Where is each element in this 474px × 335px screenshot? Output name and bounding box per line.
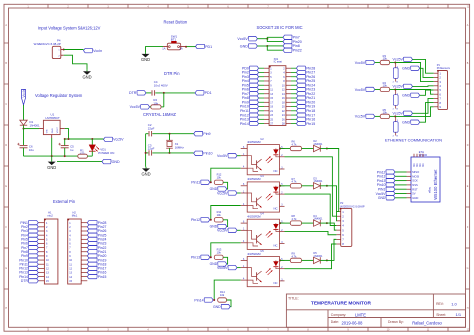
svg-text:10u: 10u — [29, 148, 34, 152]
wire sensor2 Vcc5V to P1 pin4 — [413, 85, 434, 88]
svg-text:GND: GND — [402, 67, 410, 71]
svg-text:Pin15: Pin15 — [98, 275, 107, 279]
svg-text:GND: GND — [112, 160, 120, 164]
svg-text:GND: GND — [47, 165, 56, 170]
svg-text:NC: NC — [417, 163, 419, 167]
svg-text:Sheet:: Sheet: — [436, 313, 446, 317]
connector P2 pin 5 — [336, 228, 344, 232]
svg-text:IC seat: IC seat — [274, 60, 282, 64]
socket X01 pin 8 with flag Pin25 — [283, 79, 315, 83]
socket X01 pin 10 with flag Pin24 — [282, 83, 315, 87]
svg-text:CRYSTAL 16MHZ: CRYSTAL 16MHZ — [143, 112, 176, 117]
svg-text:1N4001: 1N4001 — [313, 254, 323, 258]
header H1 pin 11 flag Pin11 — [19, 262, 49, 266]
svg-text:U4: U4 — [260, 212, 264, 216]
net flag GND sensor3 — [402, 120, 420, 125]
wire crystal top left — [146, 133, 149, 135]
wire 5V rail — [65, 138, 104, 140]
header H2 pin 6 flag Pin23 — [69, 241, 106, 245]
svg-text:10k: 10k — [217, 250, 222, 254]
junction D2 output — [326, 148, 328, 150]
header H2 pin 4 flag Pin25 — [69, 233, 106, 237]
svg-text:mic2: mic2 — [47, 214, 53, 218]
svg-text:ETHERNET COMMUNICATION: ETHERNET COMMUNICATION — [385, 137, 442, 142]
svg-text:1/1: 1/1 — [456, 312, 462, 317]
header H2 pin 2 flag Pin27 — [69, 225, 106, 229]
resistor R8 — [290, 221, 301, 225]
resistor R2 — [151, 105, 161, 109]
socket X01 pin 11 with flag Pin6 — [242, 87, 274, 91]
socket X01 pin 3 with flag Pin2 — [242, 70, 273, 74]
net flag Pin12 — [191, 218, 210, 223]
svg-text:Pin15: Pin15 — [306, 122, 315, 126]
header H2 pin 12 flag Pin17 — [69, 266, 106, 270]
junction crystal bottom — [169, 152, 171, 154]
wire Vcc5V to R3 — [375, 62, 380, 64]
net flag Vcc5V regulator out — [104, 137, 125, 142]
svg-text:2A: 2A — [179, 47, 182, 51]
regulator U1 LM7805CT — [39, 120, 65, 138]
header H2 pin 14 flag Pin15 — [69, 275, 106, 279]
net flag Pin9 — [194, 132, 211, 137]
connector P1 pin 7 — [434, 97, 442, 101]
net flag Vcc5V opto U5 — [217, 265, 237, 270]
junction Pin13 node — [210, 256, 212, 258]
net flag Pin22 — [283, 48, 302, 53]
socket X01 pin 13 with flag Pin7 — [242, 92, 274, 96]
junction U4 pin5 — [279, 222, 281, 224]
svg-text:1u: 1u — [70, 148, 74, 152]
net flag GND R12 group — [210, 187, 227, 191]
net flag Pin7 — [283, 35, 300, 40]
connector P2 pin 8 — [336, 242, 344, 246]
junction 5V rail at U1 elbow — [68, 138, 70, 140]
svg-text:SCK: SCK — [412, 179, 418, 183]
svg-text:G: G — [467, 267, 469, 270]
svg-text:22pF: 22pF — [148, 147, 155, 151]
wire to Pin22 — [267, 46, 283, 50]
wire U1 VOUT to 5V rail — [65, 129, 69, 139]
resistor R14 — [218, 298, 227, 302]
sensor connector J1 — [393, 63, 399, 84]
svg-text:Pin11: Pin11 — [191, 181, 200, 185]
svg-text:RST: RST — [412, 187, 418, 191]
wire gnd rail to GND flag — [57, 161, 102, 163]
junction U5 pin5 — [279, 259, 281, 261]
header H2 pin 9 flag Pin20 — [69, 254, 106, 258]
svg-text:Vcc5V: Vcc5V — [113, 138, 124, 142]
svg-text:TITLE:: TITLE: — [288, 297, 299, 301]
svg-text:W5100 Ethernet: W5100 Ethernet — [433, 169, 438, 200]
svg-text:Reset Button: Reset Button — [164, 19, 188, 24]
header H2 pin 15 stub — [69, 280, 87, 283]
svg-text:MOSI: MOSI — [412, 174, 419, 178]
net flag Vcc5V sensor1 to P1 — [393, 57, 413, 62]
ground symbol GND input section — [82, 70, 91, 80]
wire VccIn node down to C6 — [23, 129, 25, 145]
net flag Vcc5V sensor3 to P1 — [393, 111, 413, 116]
header H2 pin 7 flag Pin22 — [69, 246, 106, 250]
svg-text:Date:: Date: — [331, 320, 339, 324]
net flag Pin14 — [194, 298, 213, 303]
svg-text:eBay: eBay — [428, 186, 432, 193]
svg-text:MISO: MISO — [412, 170, 419, 174]
wire R8 to D4 — [302, 222, 314, 224]
wire Vcc5V to R4 — [375, 88, 380, 90]
svg-text:BT1: BT1 — [171, 37, 177, 41]
svg-text:10nJ 400V: 10nJ 400V — [154, 83, 168, 87]
diode D3 — [314, 183, 321, 189]
header H1 pin 3 flag Pin3 — [21, 229, 48, 233]
connector P2 pin 3 — [336, 219, 344, 223]
junction sensor3 data node — [394, 115, 396, 117]
wire Vcc5V to U4 pin1 — [237, 229, 241, 231]
svg-text:Pin14: Pin14 — [240, 122, 249, 126]
svg-text:Rafael_Cardoso: Rafael_Cardoso — [412, 320, 442, 325]
svg-text:VccIn: VccIn — [93, 49, 102, 53]
net flag Pin10 w5100 — [377, 183, 395, 188]
svg-text:1.0: 1.0 — [451, 301, 457, 306]
svg-text:SOCKET 28 IC FOR MIC: SOCKET 28 IC FOR MIC — [257, 25, 303, 30]
module ETH W5100 body — [407, 154, 441, 202]
resistor R3 — [380, 60, 389, 64]
svg-text:Vcc5V: Vcc5V — [355, 115, 366, 119]
wire sensor3 Vcc5V to P1 pin7 — [413, 98, 434, 113]
svg-text:GND: GND — [141, 172, 150, 177]
junction 5V rail at VD1 — [91, 138, 93, 140]
wire sensor3 data to P1 pin9 — [395, 107, 433, 117]
svg-text:Vcc5V: Vcc5V — [130, 105, 141, 109]
wire VccIn down to D1 — [23, 105, 25, 120]
wire Pin11 to W5100 — [395, 175, 407, 177]
socket X01 pin 15 with flag Pin8 — [242, 96, 274, 100]
svg-text:Vcc5V: Vcc5V — [237, 37, 248, 41]
socket X01 pin 9 with flag Pin5 — [242, 83, 273, 87]
socket X01 pin 5 with flag Pin3 — [242, 75, 273, 79]
svg-text:LMTE: LMTE — [355, 312, 366, 317]
svg-text:GND: GND — [402, 121, 410, 125]
svg-text:Voltage Regulator System: Voltage Regulator System — [35, 93, 83, 98]
svg-text:Vcc5V: Vcc5V — [217, 266, 228, 270]
net flag Vcc5V opto U3 — [217, 191, 237, 196]
wire R3 to data node — [390, 62, 396, 64]
svg-text:Vcc5V: Vcc5V — [393, 58, 404, 62]
resistor R1 — [78, 154, 88, 158]
svg-text:Vcc5V: Vcc5V — [217, 229, 228, 233]
junction D4 output — [326, 222, 328, 224]
wire R2 to Vcc5V — [150, 106, 151, 108]
resistor R7 — [290, 184, 301, 188]
resistor R11 — [214, 218, 223, 222]
svg-text:VOUT: VOUT — [57, 126, 59, 133]
header H2 pin 11 flag Pin18 — [69, 262, 106, 266]
net flag Pin13 — [191, 255, 210, 260]
connector P1 pin 6 — [434, 92, 442, 96]
svg-text:GND: GND — [213, 305, 221, 309]
socket X01 pin 12 with flag Pin23 — [282, 87, 315, 91]
wire C6 to gnd rail — [23, 148, 25, 156]
svg-text:Pin13: Pin13 — [191, 256, 200, 260]
svg-text:4.7k: 4.7k — [292, 254, 298, 258]
wire U2 pin4 to Pin11 node — [211, 168, 241, 182]
wire Vcc5V to R5 — [375, 115, 380, 117]
header H2 pin 3 flag Pin26 — [69, 229, 106, 233]
svg-text:Vcc5V: Vcc5V — [393, 85, 404, 89]
header H1 body — [44, 219, 58, 284]
wire crystal top to Pin9 — [152, 133, 193, 135]
junction gnd rail U1 — [51, 155, 53, 157]
wire VD1 to gnd rail — [91, 151, 93, 156]
svg-text:POWER ON: POWER ON — [98, 151, 114, 155]
net flag GND sensor1 — [402, 66, 420, 71]
svg-text:1N4001: 1N4001 — [313, 142, 323, 146]
net flag PIN1 w5100 — [378, 187, 395, 192]
net flag VccIn vertical — [21, 89, 26, 105]
connector P4 WJ2EDGVC-5.08-2P — [52, 46, 63, 58]
socket X01 pin 1 with flag PD0 — [242, 66, 272, 70]
net flag GND sensor2 — [402, 93, 420, 98]
net flag Pin11 w5100 — [377, 174, 395, 179]
svg-text:10k: 10k — [217, 213, 222, 217]
svg-text:Pin14: Pin14 — [194, 298, 203, 302]
wire to U1 VIN — [24, 128, 40, 130]
svg-text:Drawn By:: Drawn By: — [388, 320, 404, 324]
junction at P4 pin1 — [63, 49, 65, 51]
svg-text:GND: GND — [402, 94, 410, 98]
wire U4 pin2 to P2 pin6 — [285, 231, 337, 234]
wire GND to W5100 — [395, 197, 407, 199]
wire Vcc5V to U5 pin1 — [237, 267, 241, 269]
junction crystal gnd — [145, 152, 147, 154]
svg-text:LM7805CT: LM7805CT — [46, 116, 61, 120]
svg-text:4N25SR2M: 4N25SR2M — [247, 215, 260, 219]
svg-text:Vcc5V: Vcc5V — [355, 61, 366, 65]
svg-text:Pin10: Pin10 — [203, 152, 212, 156]
net flag Vcc5V socket — [237, 37, 257, 42]
wire R4 to data node — [390, 88, 396, 90]
svg-text:DTR Pin: DTR Pin — [164, 71, 180, 76]
resistor R6 — [290, 146, 301, 150]
wire D4 out to P2 pin5 — [327, 223, 337, 230]
svg-text:WJ2EDGVC-5.08-2P: WJ2EDGVC-5.08-2P — [34, 42, 61, 46]
header H1 pin 8 flag Pin8 — [21, 250, 48, 254]
junction GND socket — [266, 45, 268, 47]
svg-text:U5: U5 — [260, 249, 264, 253]
svg-text:H: H — [467, 307, 469, 310]
net flag Pin13 w5100 — [377, 178, 395, 183]
svg-text:D: D — [5, 144, 7, 147]
wire U3 pin4 to Pin12 node — [211, 206, 241, 220]
svg-text:1N4001: 1N4001 — [30, 124, 41, 128]
wire VD1 top — [91, 139, 93, 145]
svg-text:22pF: 22pF — [148, 126, 155, 130]
svg-text:GND: GND — [52, 128, 54, 133]
svg-text:4N25SR2M: 4N25SR2M — [247, 252, 260, 256]
svg-text:4N25SR2M: 4N25SR2M — [247, 177, 260, 181]
wire GND socket — [257, 45, 267, 47]
wire C5 top — [64, 139, 66, 146]
wire Pin13 to W5100 — [395, 180, 407, 182]
junction DTR node — [163, 92, 165, 94]
connector P2 body — [341, 208, 352, 246]
socket X01 pin 28 with flag Pin15 — [282, 121, 315, 125]
wire crystal bottom to Pin10 — [152, 152, 193, 154]
svg-text:NC: NC — [273, 244, 277, 248]
header H1 pin 13 flag Pin13 — [19, 270, 49, 274]
svg-text:Pin22: Pin22 — [293, 49, 302, 53]
wire crystal bottom left — [146, 152, 149, 154]
svg-text:H: H — [5, 307, 7, 310]
junction crystal top — [169, 133, 171, 135]
net flag Vcc5V sensor2 to P1 — [393, 84, 413, 89]
wire D1 to U1 row — [23, 125, 25, 128]
diode D5 — [314, 257, 321, 263]
crystal X1 — [166, 134, 173, 153]
resistor R4 — [380, 87, 389, 91]
svg-text:NC: NC — [273, 169, 277, 173]
junction sensor1 data node — [394, 62, 396, 64]
wire sensor1 Vcc5V to P1 pin1 — [413, 59, 434, 73]
wire D5 output stub — [320, 259, 327, 261]
connector P2 pin 1 — [336, 210, 344, 214]
svg-text:NC: NC — [423, 163, 425, 167]
connector P1 pin 9 — [434, 105, 442, 109]
svg-text:4.7k: 4.7k — [292, 180, 298, 184]
net flag Vcc5V opto U2 — [217, 154, 237, 159]
net flag Vcc5V sensor3 left — [355, 114, 375, 119]
header H1 pin 7 flag Pin7 — [21, 246, 48, 250]
svg-text:1N4001: 1N4001 — [313, 217, 323, 221]
capacitor C5 — [58, 143, 68, 148]
svg-text:DTR: DTR — [129, 91, 137, 95]
connector P1 pin 4 — [434, 84, 442, 88]
socket X01 pin 23 with flag Pin12 — [240, 113, 274, 117]
svg-text:NC: NC — [273, 206, 277, 210]
wire D5 out to P2 pin7 — [327, 239, 337, 260]
wire R2 right — [161, 106, 164, 108]
resistor R13 — [214, 255, 223, 259]
net flag Pin20 — [283, 39, 302, 44]
connector P2 pin1 marker — [340, 208, 342, 210]
wire Pin12 to W5100 — [395, 171, 407, 173]
connector P2 pin 7 — [336, 238, 344, 242]
svg-text:GND: GND — [82, 75, 91, 80]
svg-text:4N25SR2M: 4N25SR2M — [247, 140, 260, 144]
wire crystal gnd vertical — [145, 134, 147, 167]
LED VD1 — [89, 145, 99, 152]
wire sensor3 GND to P1 pin8 — [420, 103, 434, 123]
svg-text:C: C — [5, 103, 7, 106]
wire to Pin8 — [267, 45, 283, 47]
wire R13 to GND flag — [223, 257, 228, 264]
svg-text:WJ2EDGVC-5.08-8P: WJ2EDGVC-5.08-8P — [340, 204, 365, 208]
capacitor C6 — [17, 143, 27, 148]
svg-text:REV:: REV: — [436, 302, 444, 306]
ground symbol regulator — [47, 160, 56, 170]
junction sensor2 data node — [394, 88, 396, 90]
header H1 pin 15 flag DTR — [21, 279, 49, 283]
net flag GND R11 group — [210, 224, 227, 228]
header H1 pin 6 flag Pin6 — [21, 241, 48, 245]
wire sensor2 data to P1 pin6 — [395, 90, 433, 95]
svg-text:External Pin: External Pin — [53, 199, 76, 204]
gnd rail wire regulator — [24, 155, 78, 157]
optocoupler U2 body — [241, 145, 285, 175]
net flag GND w5100 — [378, 196, 395, 201]
header H2 pin 8 flag Pin21 — [69, 250, 106, 254]
svg-text:PD1: PD1 — [205, 91, 212, 95]
junction Vcc5V socket — [266, 38, 268, 40]
svg-text:16MHz: 16MHz — [175, 145, 185, 149]
junction Pin14 node — [213, 299, 215, 301]
socket X01 body — [269, 66, 286, 126]
connector P1 pin 3 — [434, 80, 442, 84]
svg-text:PD1: PD1 — [205, 45, 212, 49]
wire D3 out to P2 pin3 — [327, 186, 337, 221]
wire DTR node to R2 — [163, 93, 165, 107]
net flag DTR — [129, 91, 146, 96]
connector P1 pin 2 — [434, 76, 442, 80]
wire R9 to D5 — [302, 259, 314, 261]
net flag Vcc5V dtr — [130, 105, 150, 110]
socket X01 pin 17 with flag Pin9 — [242, 100, 274, 104]
header H1 pin 2 flag Pin2 — [21, 225, 48, 229]
net flag GND R13 group — [210, 262, 227, 266]
svg-text:10k: 10k — [220, 293, 225, 297]
wire U4 pin4 to Pin13 node — [211, 243, 241, 257]
wire SW1 to GND — [146, 47, 164, 53]
svg-text:GND: GND — [378, 196, 386, 200]
wire sensor2 GND to P1 pin5 — [420, 90, 434, 95]
wire R11 to GND flag — [223, 220, 228, 227]
wire C4 to PD1 node — [155, 92, 195, 94]
resistor R5 — [380, 114, 389, 118]
wire to Pin7 — [267, 37, 283, 38]
svg-text:Vcc5V: Vcc5V — [393, 112, 404, 116]
socket X01 pin 20 with flag Pin19 — [282, 104, 315, 108]
socket X01 pin 7 with flag Pin4 — [242, 79, 273, 83]
junction Pin11 node — [210, 181, 212, 183]
header H2 pin 13 flag Pin16 — [69, 270, 106, 274]
svg-text:GND: GND — [240, 44, 248, 48]
svg-text:Vcc5V: Vcc5V — [217, 191, 228, 195]
connector P1 pin1 marker — [437, 70, 439, 72]
svg-text:D: D — [467, 144, 469, 147]
net flag Pin8 — [283, 44, 300, 49]
net flag VccIn — [84, 48, 103, 53]
junction VccIn node — [23, 128, 25, 130]
wire R1 to VD1 — [87, 155, 92, 157]
socket X01 pin 2 with flag Pin28 — [283, 66, 315, 70]
svg-text:VIN: VIN — [47, 129, 49, 133]
wire P4 pin1 to VccIn — [64, 49, 84, 51]
net flag Vcc5V sensor2 left — [355, 87, 375, 92]
net flag Vcc5V opto U4 — [217, 228, 237, 233]
svg-text:U3: U3 — [260, 174, 264, 178]
svg-text:DTR: DTR — [21, 279, 29, 283]
connector P1 body — [438, 71, 448, 110]
wire Vcc5V to U2 pin1 — [237, 155, 241, 157]
net flag GND R14 group — [213, 305, 230, 309]
svg-text:NC: NC — [420, 163, 422, 167]
socket X01 pin 19 with flag Pin10 — [240, 104, 274, 108]
svg-text:Pin9: Pin9 — [203, 132, 210, 136]
junction D3 output — [326, 185, 328, 187]
sensor connector J2 — [393, 89, 399, 110]
socket X01 pin 25 with flag Pin13 — [240, 117, 274, 121]
socket X01 pin1 marker — [269, 66, 271, 68]
wire P4 pin2 to GND — [64, 55, 87, 69]
